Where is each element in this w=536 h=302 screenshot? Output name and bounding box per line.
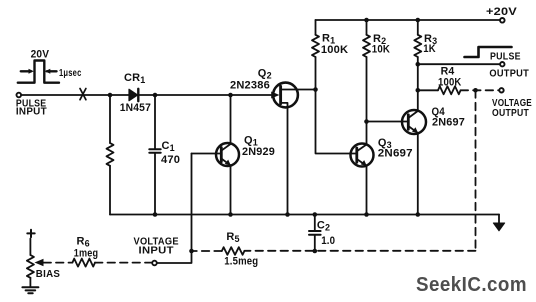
svg-text:+20V: +20V	[486, 6, 518, 18]
pulse input waveform icon	[18, 61, 59, 83]
pulse output waveform icon	[465, 47, 512, 57]
node: R3 top	[416, 18, 421, 23]
wire: R3 to R4 node	[417, 64, 419, 90]
wire: R1 to drain junction and Q3 base	[316, 57, 357, 154]
wire: Q2 source to rail	[281, 103, 288, 215]
resistor (unlabeled, input shunt)	[107, 143, 114, 166]
node: C1 bottom	[153, 212, 158, 217]
wire: R2 to Q3 collector	[366, 57, 368, 145]
svg-text:2N697: 2N697	[378, 147, 413, 159]
node: R5 branch	[189, 249, 194, 254]
resistor R2	[366, 20, 368, 35]
top rail +20V	[316, 19, 500, 21]
wire: pulse output	[418, 63, 500, 65]
node: input/divider junction	[108, 93, 113, 98]
node: pulse output tap	[416, 62, 421, 67]
node: Q1 emitter on rail	[228, 212, 233, 217]
+20V terminal	[500, 18, 505, 23]
wire: dashed wiper to R6	[44, 262, 73, 264]
wire: Q4 emitter to rail	[417, 133, 419, 215]
dashed net: voltage output down and across	[475, 90, 477, 248]
svg-text:100K: 100K	[438, 76, 462, 88]
svg-text:1meg: 1meg	[74, 248, 98, 260]
wire: Q4 collector	[417, 90, 419, 111]
svg-text:R6: R6	[77, 235, 90, 248]
ground (rail right end)	[498, 215, 500, 224]
svg-text:1.0: 1.0	[321, 235, 335, 247]
resistor R6	[72, 259, 95, 267]
node: Q2 drain / R1 junction	[313, 87, 318, 92]
svg-text:OUTPUT: OUTPUT	[492, 107, 529, 119]
svg-text:OUTPUT: OUTPUT	[489, 67, 529, 79]
node: Q2 source on rail	[285, 212, 290, 217]
svg-text:SeekIC.com: SeekIC.com	[416, 274, 527, 296]
svg-text:2N929: 2N929	[242, 146, 275, 158]
pulse input terminal	[17, 93, 22, 98]
svg-text:PULSE: PULSE	[490, 51, 521, 63]
resistor R1	[315, 20, 317, 35]
wire: resistor to bottom rail	[109, 166, 111, 215]
node: CR1 cathode junction	[153, 93, 158, 98]
svg-text:2N697: 2N697	[432, 116, 465, 128]
bias plus sign	[27, 230, 34, 237]
ground (bias pot)	[22, 286, 38, 288]
svg-text:20V: 20V	[31, 48, 50, 60]
svg-text:C1: C1	[162, 140, 175, 153]
node: Q1 collector tap	[228, 93, 233, 98]
svg-text:1μsec: 1μsec	[59, 67, 82, 79]
X mark on input wire	[80, 89, 86, 100]
svg-text:2N2386: 2N2386	[230, 80, 270, 92]
pulse output terminal	[500, 62, 504, 66]
transistor Q2 (JFET)	[273, 83, 298, 108]
resistor R4	[418, 89, 438, 91]
bias pot: plus lead	[29, 239, 31, 256]
wire: to Q4 base	[367, 121, 409, 123]
wire: input to Q2 gate	[21, 94, 271, 96]
node: R2 top	[364, 18, 369, 23]
diode CR1	[129, 89, 138, 100]
wire: base net down to voltage input	[157, 154, 192, 264]
resistor R3	[417, 20, 419, 35]
svg-text:1.5meg: 1.5meg	[224, 256, 258, 268]
bottom rail	[110, 214, 499, 216]
wire: C1 to bottom rail	[154, 154, 156, 215]
svg-text:C2: C2	[317, 220, 330, 233]
wire: Q1 emitter to rail	[230, 165, 232, 214]
svg-text:1N457: 1N457	[120, 102, 151, 114]
svg-text:470: 470	[161, 154, 180, 166]
wire: down to unlabeled resistor	[109, 95, 111, 143]
voltage output terminal	[499, 88, 503, 92]
svg-text:10K: 10K	[372, 44, 390, 56]
svg-text:INPUT: INPUT	[16, 106, 47, 118]
wire: R4 dashed to voltage output	[461, 89, 499, 91]
node: Q4 emitter on rail	[416, 212, 421, 217]
node: R4 tap / Q4 collector	[416, 88, 421, 93]
capacitor C2	[313, 212, 318, 217]
wire: Q1 base lead	[192, 153, 222, 155]
svg-text:BIAS: BIAS	[36, 268, 60, 280]
svg-text:1K: 1K	[423, 43, 436, 55]
node: voltage output branch	[473, 88, 478, 93]
capacitor C1	[154, 95, 156, 148]
transistor Q3	[351, 144, 374, 167]
potentiometer BIAS	[27, 255, 34, 278]
wire: Q2 drain lead	[281, 89, 315, 91]
wire: dashed R6 to voltage input	[95, 262, 152, 264]
node: Q3 emitter on rail	[364, 212, 369, 217]
svg-text:CR1: CR1	[124, 72, 146, 85]
transistor Q4	[402, 110, 426, 134]
transistor Q1	[216, 143, 239, 166]
svg-text:100K: 100K	[321, 44, 348, 56]
voltage input terminal	[152, 261, 157, 266]
resistor R5	[222, 247, 245, 255]
waveform arrowheads	[29, 69, 34, 74]
wiper arrow	[35, 259, 44, 267]
svg-text:Q2: Q2	[258, 67, 272, 80]
wire: Q3 emitter to rail	[366, 166, 368, 215]
svg-text:R5: R5	[226, 231, 239, 244]
wire: Q1 collector	[230, 95, 232, 144]
svg-text:INPUT: INPUT	[139, 245, 175, 257]
node: Q3 collector / Q4 base junction	[364, 119, 369, 124]
